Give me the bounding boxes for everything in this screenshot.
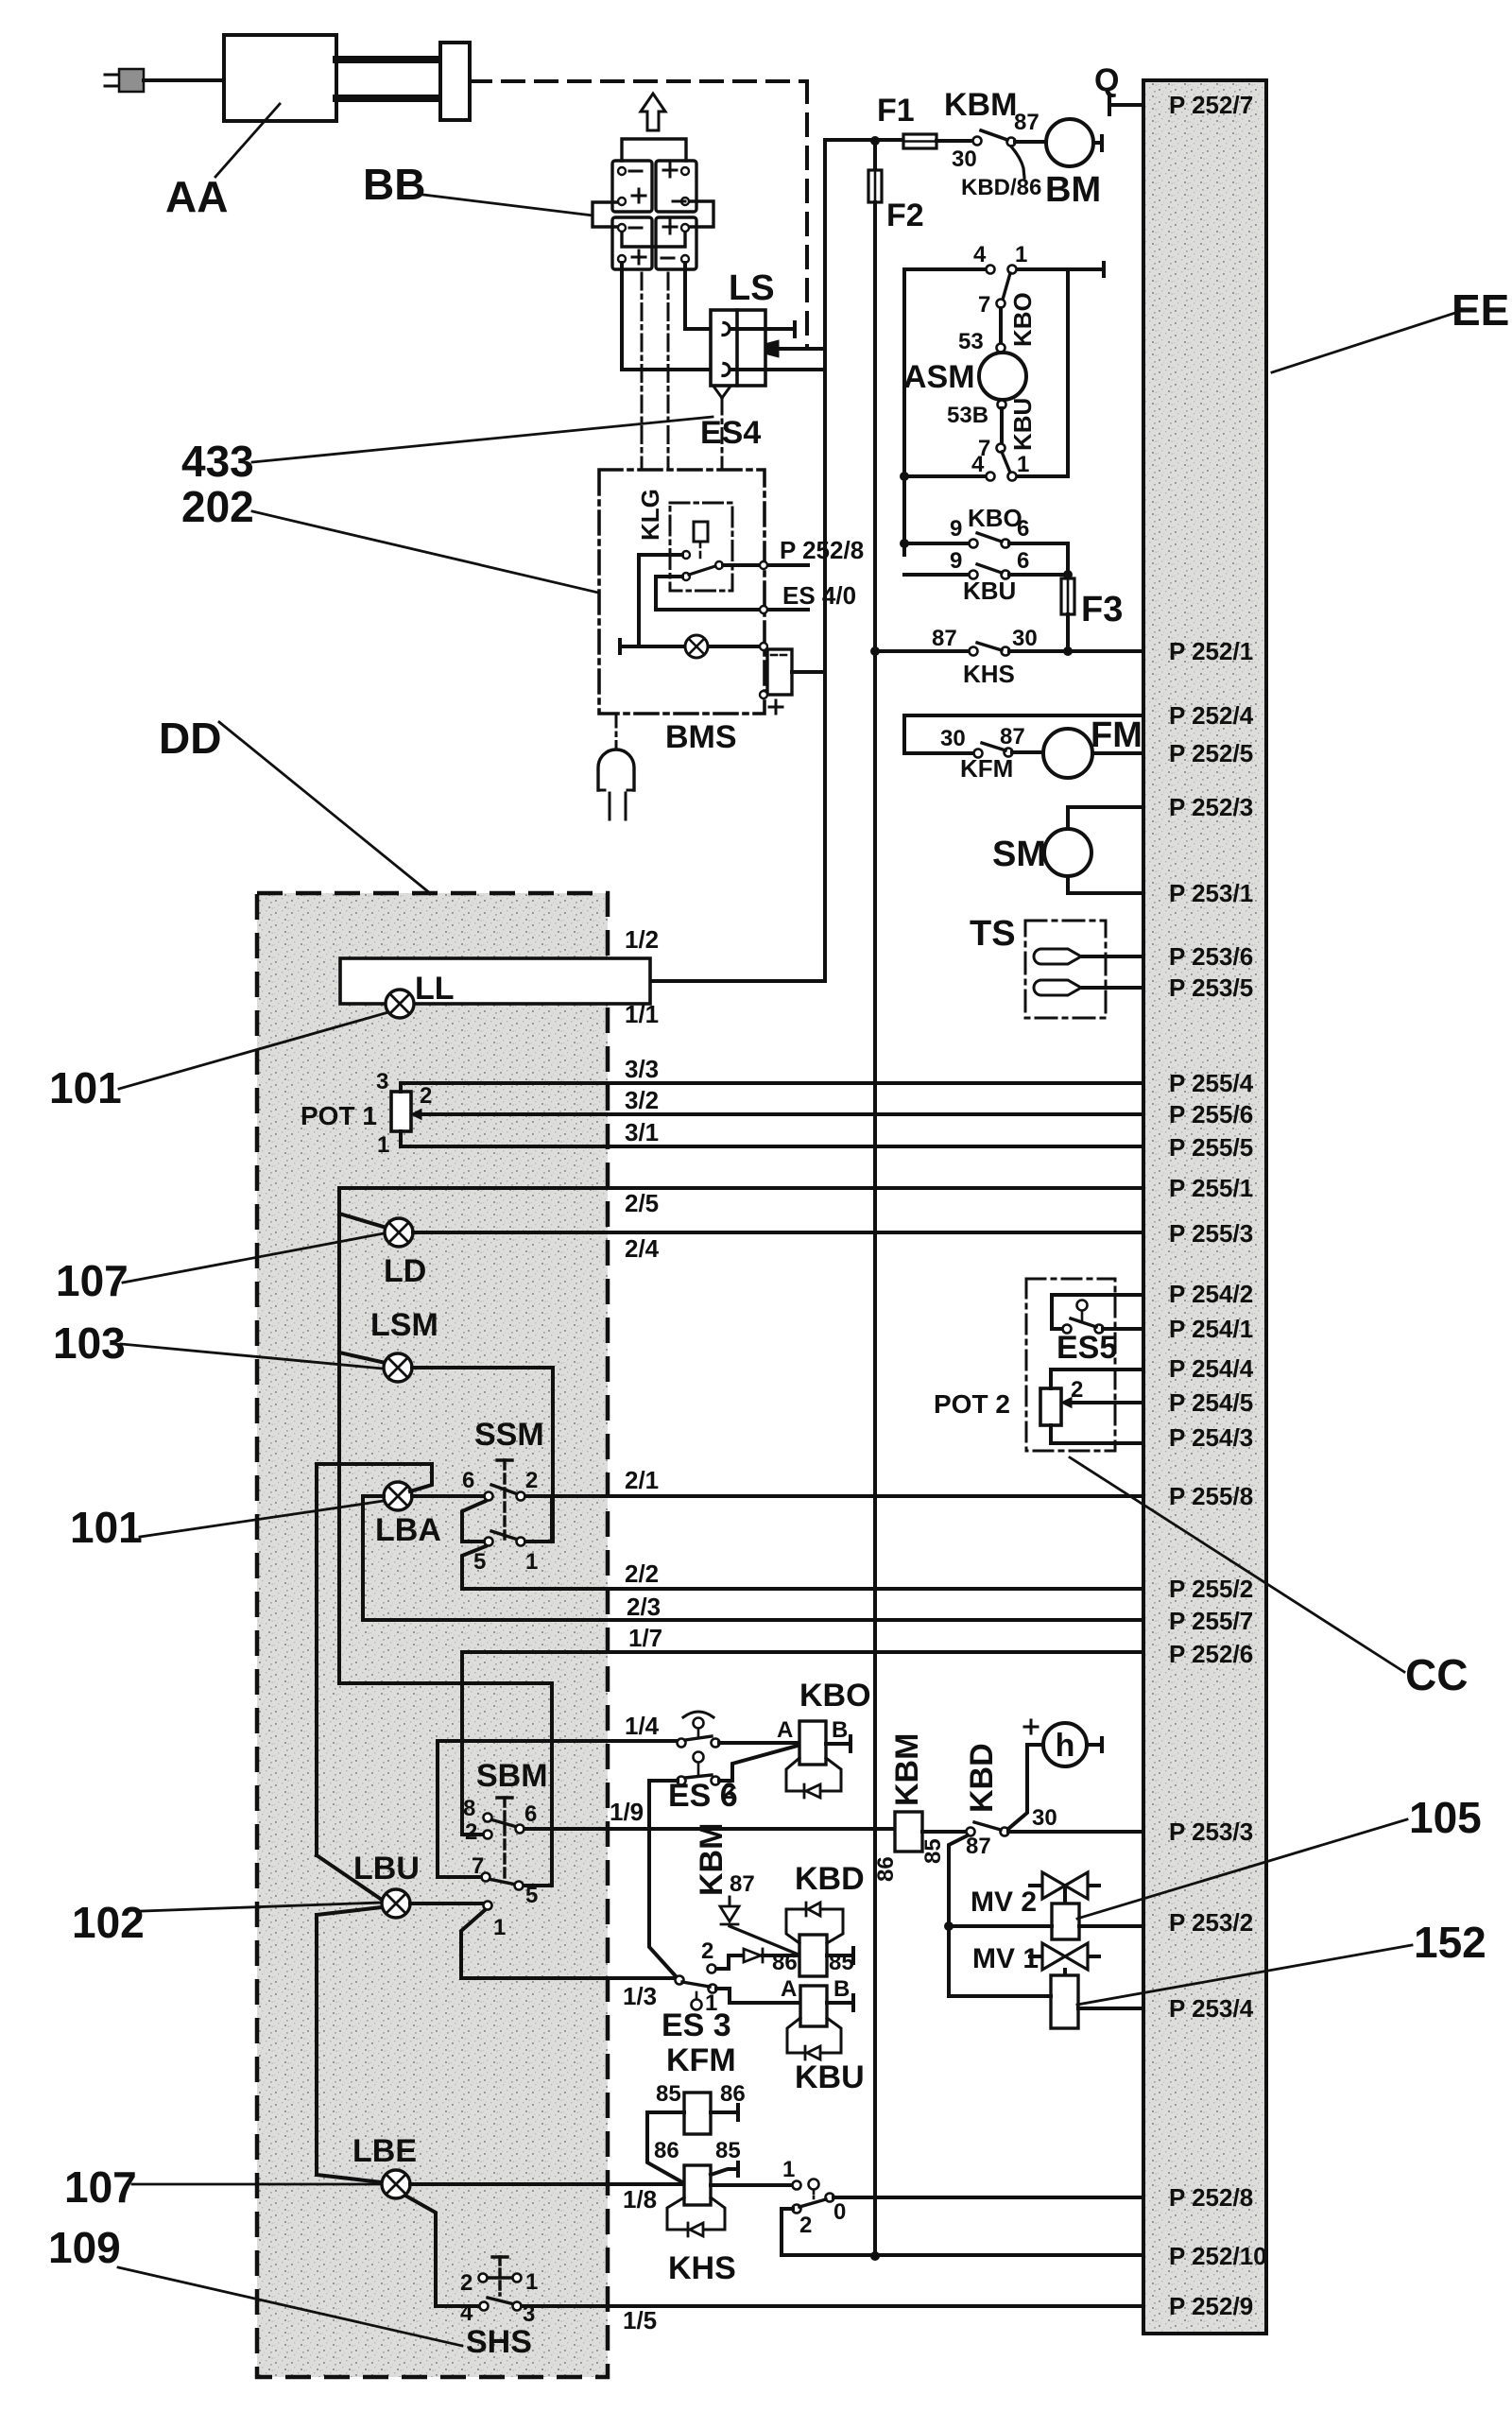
svg-text:107: 107 (64, 2162, 137, 2212)
wire 2/5 (339, 1186, 1143, 1190)
svg-text:6: 6 (1017, 548, 1029, 574)
arrow into LS (777, 347, 823, 351)
leader 433 (252, 417, 713, 462)
junction F1/F2 (870, 136, 880, 146)
svg-text:KLG: KLG (636, 489, 664, 541)
motor ASM (979, 353, 1026, 400)
svg-text:101: 101 (70, 1503, 143, 1552)
svg-text:P 254/2: P 254/2 (1169, 1280, 1253, 1308)
svg-text:P 254/3: P 254/3 (1169, 1423, 1253, 1452)
switch KBO row (904, 542, 970, 545)
terminal Q (1109, 96, 1143, 114)
svg-text:P 252/1: P 252/1 (1169, 637, 1253, 665)
svg-text:P 252/9: P 252/9 (1169, 2292, 1253, 2320)
svg-text:P 255/4: P 255/4 (1169, 1069, 1254, 1097)
battery bridges (622, 139, 686, 161)
svg-text:1: 1 (1015, 242, 1027, 267)
ES5 switch (1052, 1295, 1143, 1329)
switch ES3 (676, 1976, 684, 1985)
leader 101b (LBA) (140, 1501, 384, 1537)
svg-text:6: 6 (1017, 516, 1029, 542)
leader 105 (MV2) (1077, 1819, 1407, 1919)
svg-text:1/2: 1/2 (625, 925, 659, 954)
svg-text:4: 4 (971, 452, 985, 477)
svg-text:P 252/5: P 252/5 (1169, 739, 1253, 767)
svg-text:P 252/10: P 252/10 (1169, 2242, 1267, 2270)
leader 202 (252, 511, 598, 593)
svg-text:Q: Q (1094, 62, 1119, 98)
svg-text:2: 2 (723, 1779, 735, 1804)
svg-text:P 253/4: P 253/4 (1169, 1994, 1254, 2023)
svg-text:85: 85 (715, 2138, 741, 2163)
svg-text:ES4: ES4 (700, 415, 761, 451)
svg-text:2: 2 (465, 1819, 477, 1845)
svg-text:POT 1: POT 1 (301, 1101, 377, 1130)
leader 107b (LBE) (132, 2183, 382, 2186)
svg-text:KHS: KHS (963, 660, 1015, 688)
BMS indicator lamp (685, 635, 708, 658)
BMS lamp line (620, 640, 762, 653)
svg-text:152: 152 (1414, 1918, 1486, 1967)
svg-text:1: 1 (493, 1915, 506, 1940)
wire SBM 5 (524, 1884, 552, 1887)
svg-text:LS: LS (729, 268, 775, 308)
svg-text:3: 3 (523, 2301, 535, 2327)
leader 109 (SHS) (118, 2267, 462, 2346)
svg-text:P 254/5: P 254/5 (1169, 1388, 1253, 1417)
svg-text:AA: AA (165, 172, 228, 221)
wire LBE to SHS (405, 2196, 478, 2306)
svg-text:1: 1 (377, 1132, 389, 1158)
svg-text:86: 86 (720, 2081, 746, 2107)
wire 1/9 (524, 1827, 895, 1831)
svg-text:3/3: 3/3 (625, 1055, 659, 1083)
svg-text:P 252/3: P 252/3 (1169, 793, 1253, 821)
svg-text:P 253/6: P 253/6 (1169, 942, 1253, 971)
motor SM (1068, 807, 1143, 829)
svg-text:53B: 53B (947, 403, 988, 428)
leader EE (1272, 312, 1458, 372)
svg-text:KBM: KBM (889, 1733, 925, 1806)
svg-text:P 255/8: P 255/8 (1169, 1482, 1253, 1510)
svg-text:SHS: SHS (466, 2324, 532, 2360)
svg-text:87: 87 (932, 626, 957, 651)
svg-text:5: 5 (473, 1549, 486, 1575)
wire plug to AA (144, 78, 224, 82)
switch SSM (503, 1460, 506, 1539)
svg-text:85: 85 (656, 2081, 681, 2107)
relay coil KBM (contact side) (895, 1812, 922, 1852)
svg-text:KHS: KHS (668, 2250, 736, 2286)
svg-text:86: 86 (654, 2138, 679, 2163)
svg-text:103: 103 (53, 1318, 126, 1368)
pump motor BM (1046, 119, 1093, 166)
svg-text:ES5: ES5 (1057, 1330, 1117, 1366)
svg-text:87: 87 (1000, 724, 1025, 749)
svg-text:30: 30 (1012, 626, 1038, 651)
svg-text:KFM: KFM (960, 754, 1013, 783)
relay KBU coil (800, 1986, 827, 2026)
svg-text:KBD/86: KBD/86 (961, 175, 1041, 200)
lamp LBA (384, 1482, 412, 1510)
relay KBM diode stub (729, 1897, 731, 1906)
svg-text:105: 105 (1409, 1793, 1482, 1842)
svg-text:LBE: LBE (352, 2133, 417, 2169)
svg-text:4: 4 (973, 242, 987, 267)
svg-text:9: 9 (950, 516, 962, 542)
wire 1/8 (410, 2182, 684, 2186)
svg-text:87: 87 (966, 1834, 991, 1859)
svg-text:1/3: 1/3 (623, 1982, 657, 2010)
connector panel EE (1143, 80, 1266, 2334)
svg-text:30: 30 (1032, 1805, 1057, 1831)
battery output wires (622, 263, 720, 370)
svg-text:P 255/1: P 255/1 (1169, 1174, 1253, 1202)
svg-text:MV 1: MV 1 (972, 1943, 1039, 1974)
potentiometer POT1 (391, 1092, 411, 1131)
lamp chain vertical (337, 1188, 341, 1683)
svg-text:2/1: 2/1 (625, 1466, 659, 1494)
svg-text:KFM: KFM (666, 2042, 736, 2078)
wire SSM 1 up + 2/1 (525, 1496, 1143, 1542)
potentiometer POT2 (1040, 1388, 1061, 1425)
mechanical links 433 (dash-dot) (642, 273, 668, 470)
battery BB cells (612, 161, 652, 212)
TS element 2 (1034, 980, 1081, 995)
wire band 1/2 1/1 (white) (340, 958, 650, 1004)
svg-text:BM: BM (1045, 170, 1101, 210)
svg-text:P 252/4: P 252/4 (1169, 701, 1254, 730)
wire KLG left to lamp line (639, 555, 682, 646)
svg-text:SSM: SSM (474, 1417, 544, 1453)
svg-text:KBU: KBU (963, 577, 1016, 605)
svg-text:A: A (781, 1976, 797, 2002)
svg-text:KBD: KBD (795, 1861, 865, 1897)
svg-text:POT 2: POT 2 (934, 1389, 1010, 1419)
svg-text:1/5: 1/5 (623, 2306, 657, 2334)
charging receptacle LS (711, 310, 765, 386)
switch ES6 lower (694, 1752, 704, 1763)
fuse F2 + long vertical (873, 141, 877, 170)
svg-text:P 255/7: P 255/7 (1169, 1607, 1253, 1635)
svg-text:30: 30 (940, 726, 966, 751)
svg-text:P 255/5: P 255/5 (1169, 1133, 1253, 1162)
KLG switch (682, 551, 690, 559)
charger AA: mains plug (105, 75, 119, 86)
lamp LBU (382, 1889, 410, 1918)
svg-text:F3: F3 (1081, 590, 1123, 629)
svg-text:1: 1 (525, 1549, 538, 1575)
leader 152 (MV1) (1077, 1945, 1412, 2005)
svg-text:2: 2 (525, 1468, 538, 1493)
svg-text:ASM: ASM (903, 359, 975, 395)
motor FM (1043, 729, 1092, 778)
svg-text:P 252/7: P 252/7 (1169, 91, 1253, 119)
svg-text:53: 53 (958, 329, 984, 354)
svg-text:P 253/1: P 253/1 (1169, 879, 1253, 907)
svg-text:P 255/3: P 255/3 (1169, 1219, 1253, 1248)
svg-text:CC: CC (1405, 1650, 1468, 1699)
svg-text:9: 9 (950, 548, 962, 574)
svg-text:85: 85 (920, 1838, 946, 1864)
svg-text:2: 2 (1071, 1377, 1083, 1403)
wire 1/5 (522, 2304, 1143, 2308)
svg-text:ES 4/0: ES 4/0 (782, 581, 856, 610)
svg-text:1/7: 1/7 (628, 1624, 662, 1652)
svg-text:5: 5 (525, 1883, 538, 1908)
wire into LBA from above (317, 1464, 432, 1491)
svg-text:P 252/8: P 252/8 (1169, 2183, 1253, 2212)
solenoid valve MV2 (1030, 1884, 1099, 1887)
svg-text:87: 87 (730, 1871, 755, 1897)
lamp LL (386, 990, 414, 1018)
svg-text:2/5: 2/5 (625, 1189, 659, 1217)
wire 2/4 (413, 1231, 1143, 1234)
svg-text:2: 2 (701, 1938, 713, 1964)
svg-text:h: h (1056, 1728, 1075, 1764)
svg-text:1: 1 (705, 1990, 717, 2016)
svg-text:0: 0 (833, 2199, 846, 2225)
svg-text:LSM: LSM (370, 1307, 438, 1343)
lamp LSM (339, 1352, 386, 1363)
svg-text:B: B (833, 1976, 850, 2002)
svg-text:2: 2 (799, 2213, 812, 2238)
svg-text:P 255/6: P 255/6 (1169, 1100, 1253, 1128)
wire SBM 1 to 1/3 (461, 1910, 674, 1978)
plug symbol ES4 (714, 388, 730, 398)
lamp LD (339, 1214, 387, 1228)
svg-text:P 254/1: P 254/1 (1169, 1315, 1253, 1343)
svg-text:2/2: 2/2 (625, 1559, 659, 1588)
leader 101 (LL) (119, 1012, 388, 1089)
svg-text:ES 3: ES 3 (661, 2007, 731, 2043)
svg-text:7: 7 (978, 292, 990, 318)
svg-text:P 253/3: P 253/3 (1169, 1817, 1253, 1846)
svg-text:2: 2 (420, 1083, 432, 1109)
svg-text:F1: F1 (877, 93, 915, 129)
node circles on BMS edge (760, 561, 767, 569)
svg-text:TS: TS (970, 914, 1016, 954)
fuse F1 (903, 134, 936, 148)
svg-text:KBU: KBU (795, 2059, 865, 2095)
wire 3/3 (401, 1083, 1143, 1092)
svg-text:85: 85 (829, 1950, 854, 1975)
charger AA box (224, 35, 336, 121)
svg-text:EE: EE (1452, 285, 1509, 335)
mode switch 1-0-2 (793, 2181, 801, 2190)
svg-text:4: 4 (460, 2300, 473, 2326)
temp sensor TS box (1025, 921, 1106, 1018)
svg-text:DD: DD (159, 714, 221, 763)
svg-text:1: 1 (525, 2269, 538, 2295)
svg-text:KBM: KBM (944, 87, 1017, 123)
switch SHS (492, 2255, 507, 2258)
switch ES6 upper (683, 1712, 713, 1717)
svg-text:107: 107 (56, 1256, 129, 1305)
svg-text:7: 7 (472, 1853, 484, 1879)
switch ES5 box (POT2 unit, dash-dot) (1026, 1279, 1115, 1451)
svg-text:KBU: KBU (1008, 398, 1037, 451)
KLG coil (694, 522, 708, 542)
svg-text:KBM: KBM (694, 1823, 730, 1896)
control box BMS (dash-dot) (599, 470, 765, 714)
svg-text:LBU: LBU (353, 1851, 420, 1886)
svg-text:KBD: KBD (964, 1743, 1000, 1813)
svg-text:3/2: 3/2 (625, 1086, 659, 1114)
fan motor FM loop (904, 715, 1143, 753)
svg-text:202: 202 (181, 482, 254, 531)
KLG inner box (670, 503, 732, 591)
svg-text:2/3: 2/3 (627, 1593, 661, 1621)
dashed charger cable (470, 81, 807, 349)
control unit DD (dashed grey box) (257, 893, 608, 2377)
svg-text:101: 101 (49, 1063, 122, 1112)
KBD suppression diode (786, 1909, 843, 1943)
svg-text:P 253/2: P 253/2 (1169, 1908, 1253, 1937)
TS element 1 (1034, 949, 1081, 964)
hour meter h (1043, 1723, 1087, 1766)
battery polarity marks (629, 164, 685, 264)
solenoid valve MV1 (1030, 1955, 1099, 1958)
KBU suppression diode (787, 2018, 841, 2053)
svg-text:SBM: SBM (476, 1758, 548, 1794)
wire SSM 6 to 5 elbow (462, 1501, 486, 1542)
svg-text:3/1: 3/1 (625, 1118, 659, 1146)
svg-text:1/1: 1/1 (625, 1000, 659, 1028)
svg-text:109: 109 (48, 2223, 121, 2272)
svg-text:30: 30 (952, 146, 977, 172)
vent arrow above battery (641, 94, 665, 130)
wire LSM to SSM (412, 1368, 553, 1542)
leader 107 (LD) (123, 1233, 384, 1283)
wire 3/1 (401, 1131, 1143, 1146)
KBM contact 2 (708, 1965, 716, 1973)
wire LBA to SSM 6 (412, 1494, 484, 1498)
leader DD (219, 722, 430, 893)
lamp group vertical LBA-LBU-LBE (317, 1464, 382, 2182)
wire 1/4 (438, 1741, 677, 1877)
svg-text:1/4: 1/4 (625, 1712, 660, 1740)
svg-text:LD: LD (384, 1253, 426, 1289)
switch KHS row (P252/1) (875, 649, 970, 653)
lamp LBE (382, 2170, 410, 2198)
svg-text:86: 86 (772, 1950, 798, 1975)
switch KBM (main) (973, 137, 982, 146)
svg-text:2: 2 (460, 2270, 472, 2296)
svg-text:LBA: LBA (375, 1512, 441, 1548)
svg-text:A: A (777, 1717, 793, 1743)
wire 1/7 (462, 1652, 1143, 1835)
svg-text:2/4: 2/4 (625, 1234, 660, 1263)
switch SBM (497, 1796, 512, 1799)
svg-text:433: 433 (181, 437, 254, 486)
leader CC (1070, 1457, 1404, 1672)
svg-text:86: 86 (873, 1856, 899, 1882)
svg-text:B: B (832, 1717, 848, 1743)
svg-text:P 255/2: P 255/2 (1169, 1575, 1253, 1603)
svg-text:KBO: KBO (1008, 292, 1037, 347)
leader 102 (LBU) (142, 1903, 382, 1911)
svg-text:8: 8 (463, 1796, 475, 1821)
wire ES4/0 stub (656, 577, 808, 610)
svg-text:LL: LL (415, 971, 455, 1007)
wire 2/2 from SSM 5 (462, 1546, 1143, 1589)
svg-text:P 254/4: P 254/4 (1169, 1354, 1254, 1383)
BMS mains plug below (615, 714, 618, 748)
svg-text:BB: BB (363, 160, 425, 209)
KBD/86 stub (1011, 146, 1024, 178)
main positive feed vertical (650, 140, 825, 981)
svg-text:KBO: KBO (799, 1678, 871, 1714)
svg-text:1/9: 1/9 (610, 1798, 644, 1826)
svg-text:3: 3 (376, 1069, 388, 1094)
antenna motor ASM loop (904, 269, 1068, 555)
svg-text:87: 87 (1014, 110, 1039, 135)
wire P252/8 stub (723, 563, 808, 567)
switch KBU row (904, 573, 970, 577)
svg-text:P 253/5: P 253/5 (1169, 973, 1253, 1002)
switch KBD (h-meter feed) (967, 1828, 975, 1836)
svg-text:1: 1 (782, 2157, 795, 2182)
AA cable bars (336, 60, 440, 98)
wire LBA left + 2/3 (363, 1496, 1143, 1620)
svg-text:6: 6 (462, 1468, 474, 1493)
leader AA (215, 104, 280, 177)
svg-text:BMS: BMS (665, 719, 737, 755)
svg-text:P 252/6: P 252/6 (1169, 1640, 1253, 1668)
relay KHS coil (684, 2165, 711, 2205)
F1 feed wire (825, 138, 903, 142)
svg-text:P 252/8: P 252/8 (780, 536, 864, 564)
svg-text:SM: SM (992, 835, 1046, 874)
svg-text:6: 6 (524, 1801, 537, 1827)
relay KBO coil (799, 1721, 826, 1765)
wire LSM chain to SBM 5 (339, 1683, 552, 1886)
BMS sense box (767, 649, 792, 695)
svg-text:F2: F2 (886, 198, 924, 233)
battery terminals (618, 167, 689, 263)
relay KBD coil (799, 1935, 827, 1976)
svg-text:FM: FM (1091, 715, 1143, 755)
relay KFM coil (684, 2093, 711, 2134)
leader BB (423, 195, 593, 215)
fuse F3 (1066, 543, 1070, 578)
leader 103 (LSM) (121, 1344, 383, 1369)
svg-text:1: 1 (1017, 452, 1029, 477)
AA end block (440, 43, 470, 120)
KHS suppression diode (667, 2197, 725, 2230)
KBO suppression diode (786, 1758, 841, 1791)
wire LBU to SBM 1 (410, 1902, 483, 1905)
wire 3/2 wiper (418, 1112, 1143, 1116)
svg-text:1/8: 1/8 (623, 2185, 657, 2214)
ASM switch contacts top (987, 266, 995, 274)
svg-text:102: 102 (72, 1898, 145, 1947)
svg-text:MV 2: MV 2 (971, 1886, 1037, 1918)
svg-text:KBO: KBO (968, 504, 1022, 532)
